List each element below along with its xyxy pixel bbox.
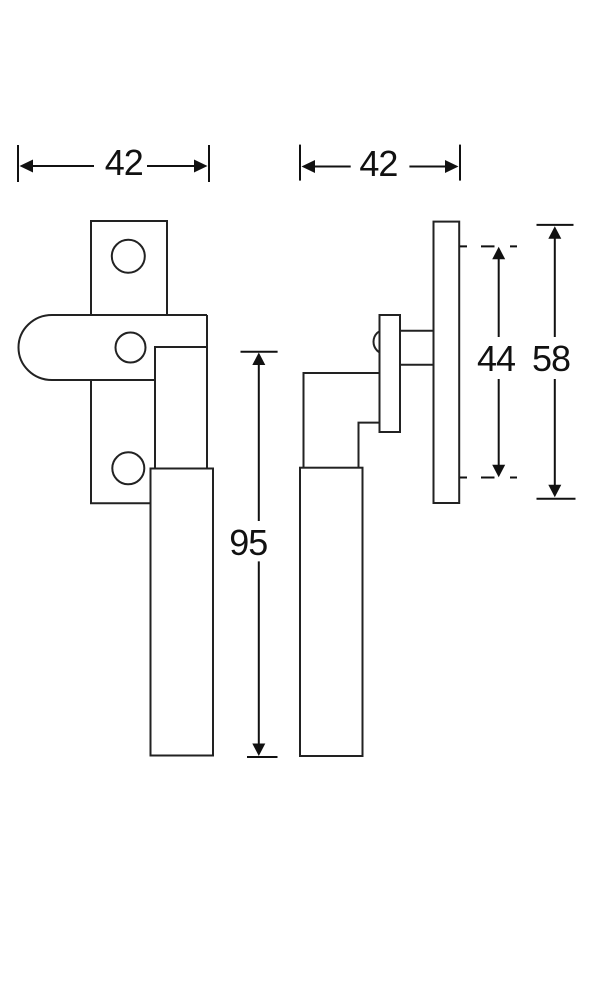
tick left xyxy=(299,145,301,181)
dimension line xyxy=(258,364,260,744)
svg-text:95: 95 xyxy=(229,522,267,563)
svg-text:58: 58 xyxy=(532,338,570,379)
dimension line xyxy=(498,259,500,467)
dimension 58 (plate height) xyxy=(537,225,576,499)
left view: handle base with rounded nose xyxy=(19,315,208,380)
dimension 95 (grip length) xyxy=(241,352,278,757)
right view: handle arm xyxy=(304,373,380,468)
dimension line xyxy=(32,165,196,167)
dimension 44 (hole spacing) xyxy=(460,246,517,477)
tick right xyxy=(459,145,461,181)
arrowhead up xyxy=(548,226,561,239)
arrowhead up xyxy=(252,353,265,366)
right view: handle grip xyxy=(300,468,363,756)
right view: washer flange xyxy=(380,315,401,432)
left view: fixing plate top section xyxy=(91,221,167,315)
dimension line xyxy=(554,238,556,486)
svg-text:44: 44 xyxy=(477,338,515,379)
tick top xyxy=(241,351,278,353)
left view: handle neck xyxy=(155,315,207,468)
arrowhead right xyxy=(194,160,208,173)
dimension 42 (right view) xyxy=(300,145,460,181)
tick bottom xyxy=(537,498,576,500)
tick left xyxy=(17,145,19,182)
dashed reference line bottom xyxy=(460,477,517,479)
arrowhead left xyxy=(302,160,316,173)
left view: fixing plate bottom section xyxy=(91,380,151,503)
svg-text:42: 42 xyxy=(359,143,397,184)
dimension line xyxy=(314,166,446,168)
left view: bottom screw hole xyxy=(112,452,144,484)
arrowhead right xyxy=(445,160,459,173)
arrowhead down xyxy=(492,465,505,478)
tick right xyxy=(208,145,210,182)
right view: spindle neck xyxy=(400,331,434,365)
arrowhead up xyxy=(492,247,505,259)
left view: middle screw hole xyxy=(116,333,146,363)
right view: back plate xyxy=(434,222,460,503)
dimension 42 (left view) xyxy=(18,145,209,182)
arrowhead left xyxy=(20,160,34,173)
arrowhead down xyxy=(252,744,265,757)
svg-text:42: 42 xyxy=(105,142,143,183)
right view: spindle circle xyxy=(374,329,399,354)
dashed reference line top xyxy=(460,245,517,247)
left view: top screw hole xyxy=(112,240,145,273)
tick top xyxy=(537,224,574,226)
tick bottom xyxy=(247,756,278,758)
arrowhead down xyxy=(548,485,561,498)
left view: handle grip xyxy=(151,469,214,756)
